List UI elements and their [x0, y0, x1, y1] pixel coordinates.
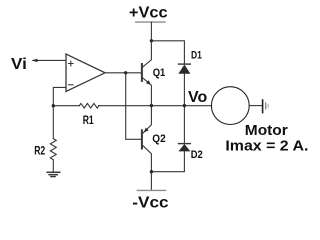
- svg-text:+Vcc: +Vcc: [129, 4, 168, 21]
- svg-text:Q2: Q2: [152, 133, 165, 145]
- svg-text:Vo: Vo: [188, 89, 207, 106]
- svg-text:-Vcc: -Vcc: [132, 194, 168, 211]
- svg-text:R1: R1: [83, 113, 94, 127]
- svg-text:Imax = 2 A.: Imax = 2 A.: [225, 137, 308, 154]
- svg-text:Q1: Q1: [153, 67, 166, 79]
- svg-text:R2: R2: [34, 144, 45, 158]
- svg-text:Motor: Motor: [245, 122, 288, 139]
- svg-text:Vi: Vi: [11, 56, 27, 73]
- svg-text:D1: D1: [191, 50, 202, 62]
- svg-text:D2: D2: [191, 149, 203, 161]
